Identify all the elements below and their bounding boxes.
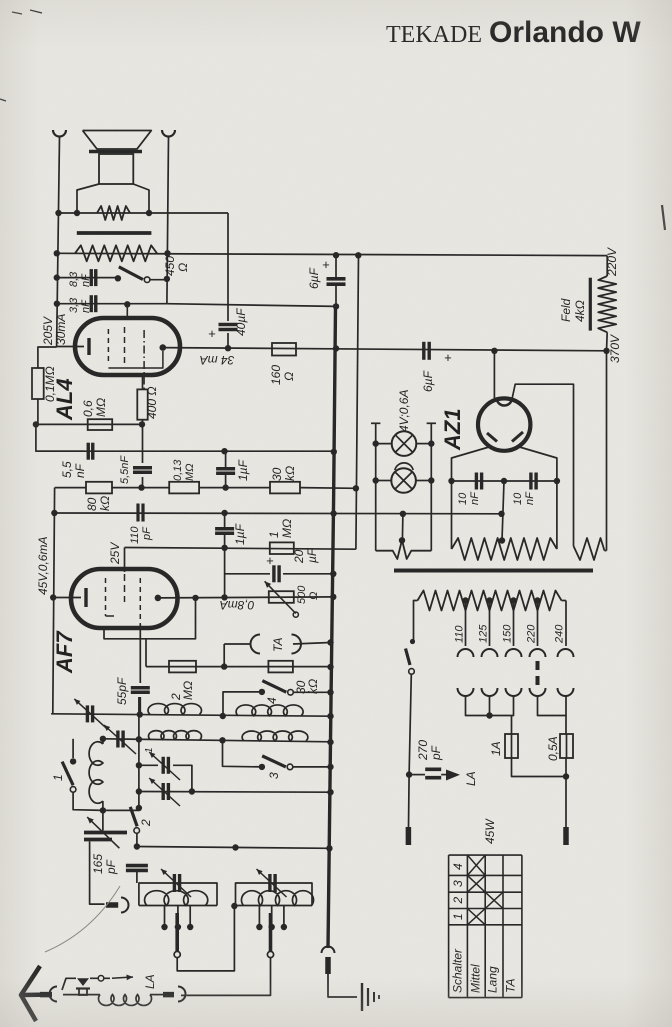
wire rail2 y548 [125, 548, 356, 550]
junction [137, 711, 143, 717]
AL4 grid dashes g3 [143, 330, 145, 389]
scan marks [0, 10, 665, 230]
resistor 0,1M box [32, 368, 44, 399]
resistor 80k box [86, 482, 112, 494]
switch speaker [115, 275, 121, 281]
wire heater right to feld [605, 550, 607, 552]
junction [499, 537, 505, 543]
wire asm2 out [187, 958, 271, 996]
antenna jack arc [50, 987, 57, 1002]
wire 20uF right [283, 573, 333, 575]
wire left terminal down [57, 137, 60, 347]
socket arcs upper [458, 649, 474, 657]
antenna plug bar [40, 992, 52, 998]
wire x224 rail2-rail3 [224, 548, 226, 598]
capacitor 8,3nF [90, 269, 93, 286]
switch 3 [259, 764, 265, 770]
AF7 grid dash g1 [105, 578, 107, 616]
wire sw3 right [293, 766, 331, 768]
junction [50, 594, 56, 600]
lamp ladder left [375, 423, 377, 550]
potentiometer 500 box [269, 591, 294, 603]
wire AZ1 anode up [493, 351, 495, 399]
wire fuse bottoms [512, 758, 567, 777]
variable cap trim2 [116, 731, 119, 748]
wire gang-a [139, 764, 158, 766]
filament winding lamps [376, 540, 432, 559]
speaker terminal arc right [162, 130, 175, 137]
AF7 grid dash g3 [139, 578, 141, 624]
junction [327, 789, 333, 795]
wire switch to right [150, 279, 167, 281]
AF7 cathode lead [53, 597, 81, 599]
switch 1 [70, 758, 76, 764]
wire speaker res to 40uF [227, 213, 229, 321]
AZ1 heater winding [574, 538, 605, 560]
wire antenna up branch [62, 978, 76, 990]
junction [327, 639, 333, 645]
wire antenna lower [63, 994, 100, 996]
AL4 grid dashes g1 [107, 329, 109, 364]
wire row2 [103, 739, 331, 742]
switch 4 [259, 689, 265, 695]
capacitor 55pF [131, 686, 150, 689]
wire 40uF bottom [227, 333, 229, 348]
wire padder down [136, 871, 138, 884]
wire spark to circle [90, 977, 110, 979]
wire centertap [502, 481, 504, 541]
wire rail y847 [137, 847, 330, 849]
wire chain to x357 [300, 487, 356, 490]
capacitor 10nF-2 [529, 473, 532, 490]
wire 400 top [142, 376, 144, 389]
tap wires [465, 601, 467, 647]
wire node down to railA [36, 424, 84, 451]
wire tap up [401, 514, 404, 541]
capacitor 6uF-2 [422, 342, 425, 360]
wire 1uF-2 leads [224, 513, 226, 529]
junction [74, 210, 80, 216]
junction [134, 843, 140, 849]
wire sw4 right [293, 691, 331, 693]
junction [54, 274, 60, 280]
resistor speaker zigzag [97, 206, 130, 220]
wire switch down [409, 675, 412, 828]
jack arc 2 [178, 987, 186, 1002]
table Schalter grid [448, 855, 450, 998]
wire railA y451 [36, 450, 334, 452]
resistor 2M box [169, 661, 196, 673]
resistor R 450 ohm zigzag [75, 245, 157, 261]
capacitor 110pF [136, 504, 139, 522]
wire lower arcs 2 [538, 696, 567, 716]
junction tap [399, 537, 405, 543]
junction [192, 595, 198, 601]
socket arcs lower [458, 688, 474, 696]
junction [603, 348, 609, 354]
wire y303.7 rail [57, 304, 336, 307]
junction [327, 664, 333, 670]
plug link 220 [536, 661, 540, 670]
jack arc [121, 898, 129, 913]
wire lower arc mid [489, 696, 491, 716]
wire top rail y254 [57, 253, 607, 255]
junction [326, 845, 332, 851]
loudspeaker cone [83, 131, 152, 150]
junction [136, 762, 142, 768]
junction [373, 440, 379, 446]
wire to asm2 [181, 994, 187, 996]
loudspeaker diaphragm bar [89, 150, 142, 154]
wire TA corner down [223, 644, 225, 667]
wire grid g3 down to 55pF [139, 624, 141, 683]
AL4 cathode bar [87, 338, 90, 355]
junction [333, 345, 339, 351]
wire y810 to x139 [103, 809, 139, 811]
wire feld down [606, 351, 608, 551]
wire 0,1M top [38, 347, 57, 368]
switch 2 [136, 805, 142, 811]
wire 6uF-1 leads [335, 255, 337, 279]
bus plug bar [325, 957, 331, 974]
junction [136, 788, 142, 794]
wire sw3 left [223, 740, 262, 767]
wire 55pF down [139, 697, 141, 714]
junction [231, 903, 237, 909]
capacitor 20uF [272, 565, 275, 582]
primary taps dots [462, 597, 468, 603]
variable cap antenna trimmer [86, 705, 89, 722]
wire cap to chain [142, 477, 144, 488]
wire right terminal down [167, 137, 169, 304]
variable cap main [84, 831, 127, 835]
junction [146, 210, 152, 216]
primary winding [418, 591, 562, 611]
resistor 0,6M box [88, 419, 113, 430]
wire vertical x54.6 [53, 488, 55, 714]
junction [33, 421, 39, 427]
junction [486, 712, 492, 718]
wire 10nF rail [452, 480, 557, 482]
wire box below AF7 [104, 598, 196, 639]
TA jack arc left [251, 635, 261, 654]
wire osc coil bottom [102, 801, 104, 810]
junction [491, 348, 497, 354]
junction [400, 511, 406, 517]
wire asm1 link [177, 906, 234, 971]
junction [330, 510, 336, 516]
wire main cap bottom [90, 842, 105, 905]
arrow LA small [112, 977, 133, 978]
variable cap gang-b [161, 783, 164, 800]
antenna symbol [21, 966, 40, 1021]
capacitor 10nF-1 [475, 473, 478, 490]
band filter assembly 1 [139, 883, 217, 906]
junction [100, 736, 106, 742]
variable cap gang-a [161, 757, 164, 774]
junction [327, 764, 333, 770]
decorative curve [45, 886, 120, 952]
wire lower arcs 1 [466, 696, 514, 716]
junction [54, 250, 60, 256]
wire rail y791.5 [139, 791, 331, 794]
wire AZ1 right top [512, 384, 574, 546]
AL4 grid dashes g2 [126, 304, 128, 319]
junction [139, 421, 145, 427]
junction [563, 773, 569, 779]
wire main cap top [102, 810, 104, 830]
speaker terminal arc left [53, 130, 66, 137]
junction [448, 478, 454, 484]
fuse 1A [511, 716, 513, 735]
oscillator coil [89, 742, 103, 804]
bus jack arc [322, 947, 335, 954]
transformer core bar [394, 569, 593, 573]
capacitor 5,5nF-2 [133, 466, 152, 469]
table X marks Mittel [467, 855, 485, 875]
junction [222, 484, 228, 490]
wire TA right [293, 643, 331, 645]
arrow LA mains [446, 770, 460, 781]
ground symbol [361, 983, 363, 1011]
junction [221, 545, 227, 551]
lamp ladder right [430, 423, 432, 550]
wire y277.6 [57, 277, 118, 279]
junction [189, 788, 195, 794]
junction [353, 485, 359, 491]
wire 400 bottom to cap [142, 420, 144, 463]
capacitor 3,3nF [90, 295, 93, 312]
wire speaker left lead [77, 184, 99, 213]
junction [138, 484, 144, 490]
resistor 160ohm box [272, 343, 296, 356]
Feld core bar [589, 278, 592, 331]
junction [373, 477, 379, 483]
wire chain mid1 [112, 487, 169, 489]
table X mark Lang [485, 892, 503, 908]
capacitor 6uF-1 [327, 277, 346, 281]
junction [428, 477, 434, 483]
AZ1 top nipple [497, 400, 512, 406]
resistor 30k-1 box [270, 482, 300, 494]
mains prong 1 [406, 827, 412, 845]
wire row2 left vert [102, 739, 104, 744]
wire x139 vertical rows [138, 697, 140, 808]
plug bar 2 [163, 992, 174, 998]
wire sw1 bottom [73, 792, 103, 810]
junction [164, 276, 170, 282]
junction [100, 807, 106, 813]
junction [164, 250, 170, 256]
AL4 internal anode-g1 wire [108, 351, 162, 368]
junction [327, 689, 333, 695]
wire TA rail y641 [224, 643, 251, 645]
junction [219, 737, 225, 743]
coil L1a [148, 704, 201, 715]
junction [124, 301, 130, 307]
AF7 anode dot [155, 595, 162, 602]
resistor Feld zigzag [598, 276, 616, 332]
wire to prong2 [565, 758, 567, 827]
tube AL4 envelope [75, 318, 180, 375]
wire 2M rail [146, 666, 331, 668]
wire 25V corner down [124, 548, 126, 573]
wire AL4 anode rail [163, 348, 607, 351]
antenna coil [99, 995, 152, 1006]
wire 1uF-1 leads [225, 451, 227, 469]
wire sw4 left [223, 692, 262, 716]
AF7 grid dash g2 [124, 574, 126, 602]
wire AF7 anode rail3 [158, 597, 333, 598]
junction [136, 736, 142, 742]
wire chain y487.6 left corner [55, 487, 86, 489]
HV winding [452, 538, 557, 560]
junction [330, 594, 336, 600]
coil L2b [242, 731, 308, 741]
junction [221, 510, 227, 516]
junction [51, 510, 57, 516]
loudspeaker magnet box [99, 154, 133, 184]
coil L2a [149, 731, 202, 740]
wire gang-a corner [173, 765, 192, 791]
junction [220, 713, 226, 719]
junction [554, 478, 560, 484]
junction [225, 345, 231, 351]
wire 20uF branch [225, 573, 270, 575]
AF7 cathode bar [84, 588, 87, 607]
output transformer core bar [77, 231, 152, 235]
AL4 anode dot [160, 344, 167, 351]
AZ1 filament left [487, 433, 497, 442]
resistor 1M box [270, 542, 294, 554]
resistor 30k-2 box [268, 661, 293, 673]
wire AZ1 leg right [520, 447, 557, 549]
junction [221, 594, 227, 600]
wire top rail corner down [606, 256, 608, 276]
capacitor 270pF [409, 774, 425, 776]
junction [54, 301, 60, 307]
spark gap [77, 978, 89, 986]
capacitor 5,5nF-1 [87, 443, 90, 460]
wire AZ1 leg left [452, 447, 490, 549]
junction [428, 440, 434, 446]
capacitor 1uF-2 [215, 527, 234, 530]
wire coil to plug [150, 994, 163, 996]
mains switch [410, 639, 415, 644]
chassis bus thick [328, 306, 336, 948]
wire sw2 bottom [136, 833, 138, 847]
junction [55, 210, 61, 216]
tube AF7 envelope [71, 569, 178, 628]
wire feld to rail [606, 332, 609, 351]
junction [221, 663, 227, 669]
junction [406, 771, 412, 777]
fuse 0,5A [565, 716, 567, 735]
wire 2M left corner [145, 639, 147, 667]
junction [327, 713, 333, 719]
lamp 2 [391, 468, 416, 493]
junction [355, 252, 361, 258]
pot 500 arrow [265, 581, 296, 613]
band filter assembly 2 [236, 883, 313, 906]
wire rail y513 [54, 512, 501, 515]
junction [498, 511, 504, 517]
capacitor 40uF [219, 323, 238, 327]
mains prong 2 [563, 827, 569, 845]
capacitor 1uF-1 [216, 467, 235, 470]
resistor 0,13M box [169, 482, 199, 494]
junction [501, 478, 507, 484]
junction [221, 448, 227, 454]
wire bus to ground [328, 974, 357, 997]
wire 0,1M bottom to node [37, 399, 39, 424]
lamp 2 eyebrow arc [395, 463, 413, 470]
AL4 cathode lead [57, 346, 85, 348]
wire y424.4 [36, 423, 142, 425]
junction [330, 571, 336, 577]
junction [327, 739, 333, 745]
capacitor padder 165pF [126, 864, 148, 868]
junction [333, 303, 339, 309]
AF7 grid hook [106, 615, 115, 617]
resistor 400ohm box [137, 389, 147, 419]
wire y213 [59, 212, 229, 214]
wire x357 vertical [356, 255, 359, 549]
wire chain mid2 [199, 487, 270, 489]
junction [232, 844, 238, 850]
TA jack arc right [292, 635, 302, 654]
lamp 1 [392, 431, 417, 456]
coil L1b [236, 705, 303, 716]
AZ1 filament right [512, 432, 523, 442]
junction [333, 252, 339, 258]
wire speaker right lead [133, 184, 149, 213]
switch 1 loop [72, 739, 74, 758]
wire row1 [51, 714, 330, 716]
plug bar small [106, 902, 118, 908]
junction [331, 449, 337, 455]
tube AZ1 envelope [478, 398, 530, 450]
